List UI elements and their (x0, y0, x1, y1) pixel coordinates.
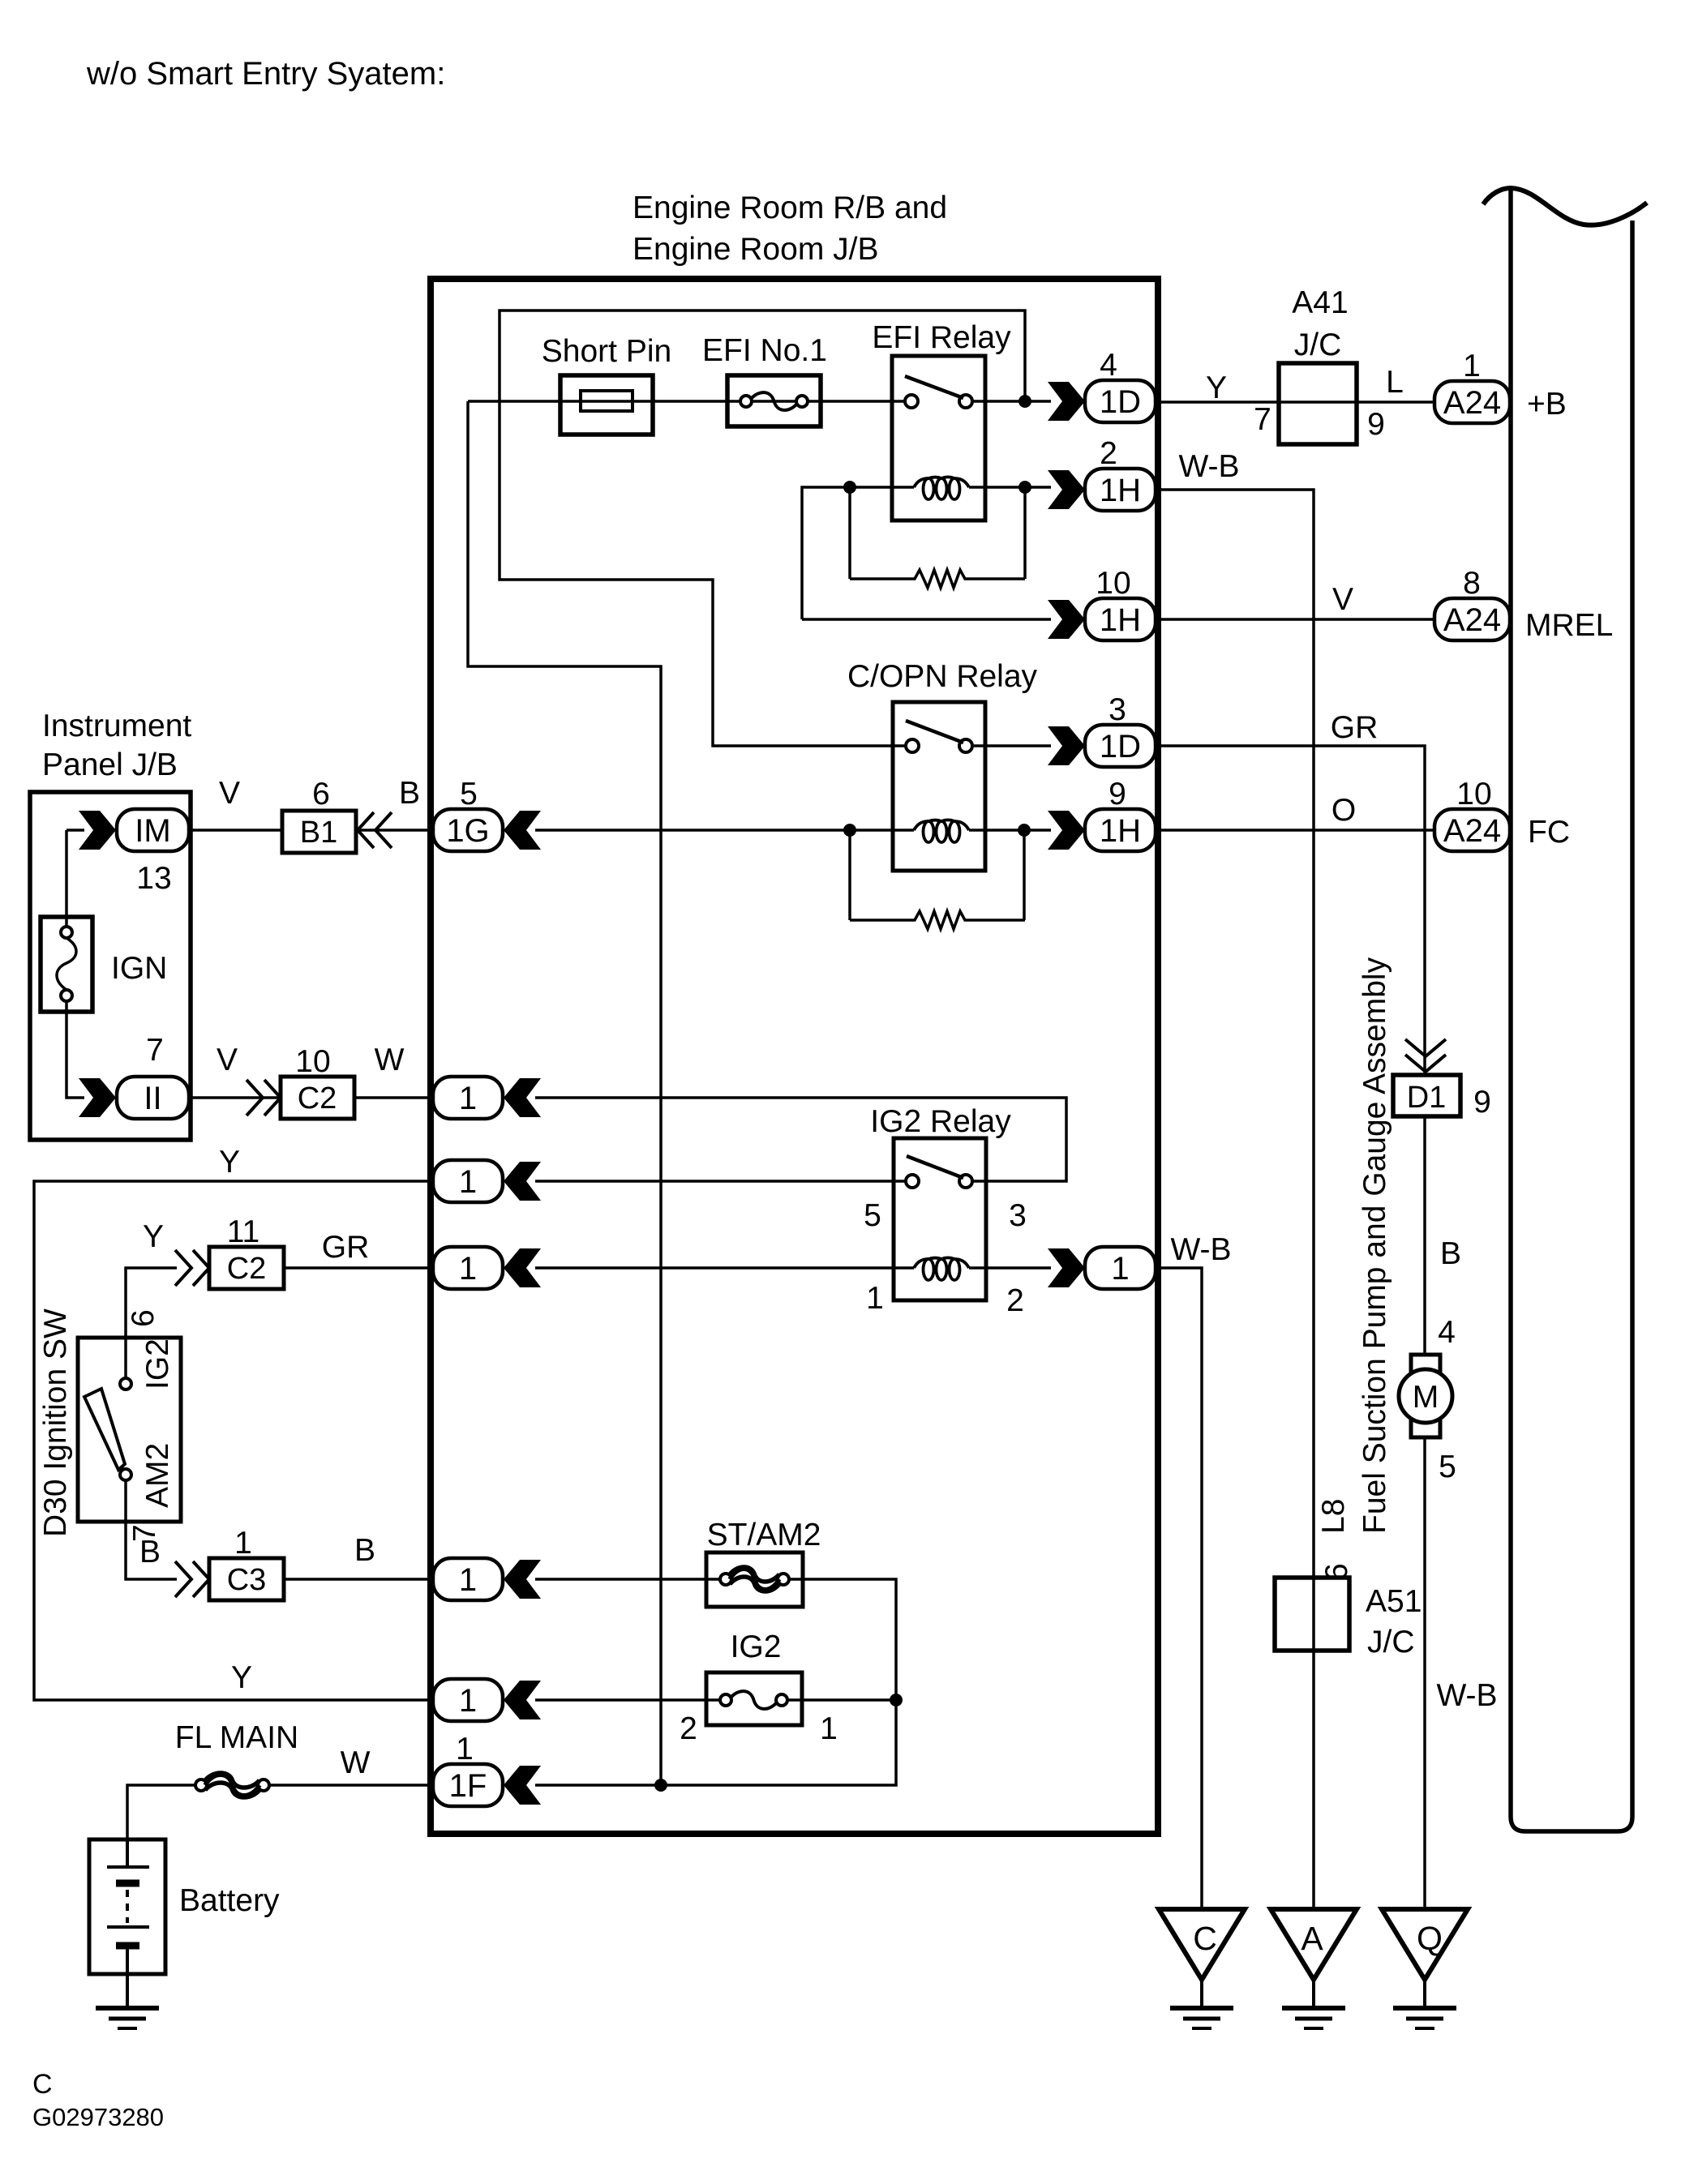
svg-text:V: V (217, 1043, 238, 1077)
label L8 (1316, 1499, 1351, 1534)
pin 6 label B1 (312, 777, 330, 812)
svg-text:C2: C2 (227, 1252, 267, 1286)
svg-text:10: 10 (1456, 777, 1491, 812)
pin 5 label motor (1439, 1450, 1456, 1484)
wire Short Pin row (468, 400, 905, 403)
svg-text:1H: 1H (1100, 813, 1141, 849)
svg-text:C3: C3 (227, 1563, 267, 1597)
IG2 contact (120, 1378, 131, 1390)
svg-text:Engine Room R/B and: Engine Room R/B and (633, 191, 947, 225)
svg-text:C: C (32, 2069, 53, 2100)
label Battery (179, 1883, 280, 1918)
wire ST/AM2 to 1F riser (535, 1579, 896, 1785)
connector 1 (433, 1679, 541, 1721)
label IGN (111, 951, 167, 986)
wire IG2 fuse output (787, 1698, 896, 1702)
svg-text:W: W (341, 1745, 371, 1780)
wire IG2 coil output pin 2 (969, 1266, 1051, 1270)
connector 1 (IG2 relay coil output) (1048, 1247, 1156, 1289)
label +B terminal (1527, 387, 1567, 422)
svg-text:6: 6 (126, 1309, 161, 1327)
pin 4 label motor (1438, 1315, 1456, 1350)
svg-text:EFI Relay: EFI Relay (872, 320, 1011, 355)
label IG2 contact (140, 1338, 175, 1390)
pin 7 label D30 (127, 1524, 162, 1542)
svg-text:A41: A41 (1292, 285, 1348, 320)
wire W-B (coil output 1 to ground C) (1155, 1268, 1202, 1909)
svg-text:5: 5 (1439, 1450, 1456, 1484)
label A51 J/C (1367, 1625, 1415, 1659)
svg-text:A51: A51 (1366, 1584, 1422, 1619)
label B wire (1440, 1236, 1461, 1271)
wire EFI relay feedback to C/OPN switch (500, 310, 1025, 746)
junction C/OPN coil output node (1018, 824, 1031, 837)
label W-B wire to Q (1436, 1678, 1497, 1713)
label A41 J/C (1294, 328, 1342, 362)
svg-text:J/C: J/C (1367, 1625, 1415, 1659)
pin 11 label C2 (227, 1214, 260, 1249)
junction C/OPN coil input node (843, 824, 856, 837)
svg-text:B: B (354, 1533, 375, 1568)
ignition switch lever (84, 1389, 125, 1470)
connector 1G pin 5 (433, 777, 541, 851)
label B wire AM2-C3 (139, 1535, 161, 1569)
svg-text:1: 1 (459, 1251, 477, 1287)
label W wire FL-1F (341, 1745, 371, 1780)
svg-text:Short Pin: Short Pin (542, 334, 671, 369)
label MREL terminal (1525, 608, 1613, 643)
svg-text:6: 6 (312, 777, 330, 812)
svg-text:1F: 1F (449, 1768, 487, 1804)
label GR wire (1331, 710, 1379, 745)
connector A24 pin 8 (1434, 566, 1510, 640)
pin 6 label D30 (126, 1309, 161, 1327)
label Y wire upper (219, 1145, 240, 1180)
relay EFI Relay box (892, 356, 985, 520)
svg-text:IG2: IG2 (731, 1629, 782, 1664)
svg-text:C2: C2 (298, 1081, 337, 1116)
AM2 contact (120, 1469, 131, 1480)
connector IM (79, 809, 189, 851)
svg-text:2: 2 (1006, 1283, 1024, 1318)
pin 1 label IG2 fuse (820, 1711, 838, 1746)
label EFI No.1 (702, 333, 827, 368)
svg-text:O: O (1332, 793, 1356, 828)
wire W row to IG2 relay pin 3 (535, 1098, 1066, 1181)
label Panel J/B (42, 747, 178, 782)
svg-text:Q: Q (1417, 1920, 1443, 1957)
connector 1 (433, 1247, 541, 1289)
title text (86, 56, 445, 92)
arrow into C3 (175, 1561, 209, 1597)
ECM boundary torn edge (1483, 188, 1647, 225)
svg-text:4: 4 (1100, 348, 1117, 383)
wire W (C2 to 1) (354, 1096, 430, 1099)
label Y wire lower (231, 1660, 252, 1695)
label Instrument (42, 709, 191, 743)
svg-text:7: 7 (1254, 402, 1271, 437)
svg-text:Instrument: Instrument (42, 709, 191, 743)
svg-text:IG2: IG2 (140, 1338, 175, 1390)
svg-text:V: V (219, 776, 240, 811)
svg-text:B1: B1 (300, 816, 337, 850)
wire IG2 contact to C2 pin 11 (126, 1268, 177, 1378)
wire B (B1 to 1G) (356, 829, 430, 832)
label V wire II-C2 (217, 1043, 238, 1077)
fuse EFI No.1 (727, 375, 821, 426)
wire GR (1D-3 to D1) (1155, 746, 1425, 1075)
arrow into C2 pin 10 (247, 1080, 281, 1116)
wire Y loop (connector 1 to connector 1) (34, 1181, 430, 1700)
svg-text:W-B: W-B (1170, 1232, 1231, 1267)
ground battery (96, 2008, 159, 2028)
svg-text:1G: 1G (446, 813, 489, 849)
wire Y (1D-4 to A41) (1155, 400, 1279, 404)
fusible link FL MAIN (195, 1773, 269, 1797)
junction EFI coil input node (843, 481, 856, 494)
pin 2 label IG2 relay (1006, 1283, 1024, 1318)
svg-text:Battery: Battery (179, 1883, 280, 1918)
Instrument Panel J/B box (30, 792, 191, 1140)
svg-text:L: L (1386, 365, 1404, 400)
pin 10 label C2 (295, 1044, 330, 1079)
svg-text:A24: A24 (1443, 385, 1501, 421)
C/OPN relay switch (906, 721, 972, 752)
IG2 relay coil (914, 1258, 969, 1281)
svg-text:11: 11 (227, 1214, 260, 1249)
fusible link ST/AM2 (706, 1552, 803, 1607)
svg-text:Fuel Suction Pump and Gauge As: Fuel Suction Pump and Gauge Assembly (1357, 957, 1392, 1534)
wire V (II to C2) (189, 1096, 281, 1099)
pin 9 label D1 (1473, 1085, 1491, 1120)
wire B (C3 to 1) (284, 1578, 430, 1581)
wire C/OPN coil output (969, 829, 1051, 832)
fuse IGN (41, 917, 92, 1012)
svg-text:J/C: J/C (1294, 328, 1342, 362)
label Engine Room R/B and (633, 191, 947, 225)
svg-text:Y: Y (1206, 370, 1227, 405)
wire W-B through A51 to ground A (1312, 1576, 1315, 1909)
wire C/OPN switch output (972, 744, 1051, 747)
pin 9 label A41 (1367, 407, 1385, 442)
wire V (1H-10 to A24-8) (1155, 618, 1434, 621)
connector A24 pin 1 (1434, 349, 1510, 423)
label AM2 contact (140, 1443, 175, 1508)
connector 1H pin 2 (1048, 436, 1156, 511)
connector 1F pin 1 (433, 1732, 541, 1806)
svg-text:B: B (399, 776, 420, 811)
svg-text:1: 1 (866, 1281, 884, 1316)
C/OPN relay coil (914, 820, 969, 843)
fuse IG2 (706, 1672, 802, 1725)
svg-text:ST/AM2: ST/AM2 (707, 1518, 821, 1552)
pin 1 label IG2 relay (866, 1281, 884, 1316)
svg-text:5: 5 (460, 777, 478, 812)
svg-text:w/o Smart Entry Syatem:: w/o Smart Entry Syatem: (86, 56, 445, 92)
label W-B wire to C (1170, 1232, 1231, 1267)
resistor EFI relay parallel (850, 487, 1025, 588)
pin 13 label IM (136, 861, 171, 896)
svg-text:2: 2 (680, 1711, 697, 1746)
svg-text:1H: 1H (1100, 602, 1141, 638)
svg-text:G02973280: G02973280 (32, 2103, 164, 2131)
label V wire (1332, 582, 1353, 617)
svg-text:IG2 Relay: IG2 Relay (870, 1104, 1011, 1139)
svg-text:1: 1 (456, 1732, 474, 1766)
wire W (FL MAIN to 1F) (270, 1784, 430, 1787)
svg-text:C/OPN Relay: C/OPN Relay (847, 659, 1038, 694)
EFI relay coil (914, 477, 969, 500)
svg-text:10: 10 (295, 1044, 330, 1079)
svg-text:4: 4 (1438, 1315, 1456, 1350)
svg-text:EFI No.1: EFI No.1 (702, 333, 827, 368)
svg-text:Y: Y (143, 1219, 164, 1254)
arrow into C2 pin 11 (175, 1250, 209, 1286)
svg-text:GR: GR (322, 1230, 370, 1265)
wire GR row to IG2 coil pin 1 (535, 1266, 914, 1270)
connector II (79, 1077, 189, 1119)
wire W-B (motor to ground Q) (1423, 1437, 1426, 1909)
svg-text:GR: GR (1331, 710, 1379, 745)
svg-text:1D: 1D (1100, 729, 1141, 764)
svg-text:Y: Y (219, 1145, 240, 1180)
connector 1 (433, 1077, 541, 1119)
wire W-B (1H-2 to ground A) (1155, 490, 1314, 1576)
svg-text:Engine Room J/B: Engine Room J/B (633, 232, 879, 267)
short pin SP (560, 375, 653, 435)
connector 1H pin 9 (1048, 777, 1156, 851)
wire V (IM to B1) (189, 829, 282, 832)
label FL MAIN (175, 1720, 298, 1755)
ground C (1159, 1909, 1245, 2028)
svg-text:M: M (1413, 1380, 1439, 1415)
svg-text:5: 5 (864, 1198, 881, 1233)
label FC terminal (1528, 815, 1570, 850)
label G02973280 (32, 2103, 164, 2131)
label A41 (1292, 285, 1348, 320)
svg-text:V: V (1332, 582, 1353, 617)
junction connector C2 pin 10 (281, 1077, 354, 1119)
svg-text:B: B (139, 1535, 161, 1569)
pin 6 label A51 (1319, 1563, 1354, 1581)
motor M fuel suction pump (1399, 1355, 1452, 1437)
label GR wire C2-1 (322, 1230, 370, 1265)
pin 7 label II (146, 1033, 164, 1068)
wire Y row to IG2 fuse (535, 1698, 721, 1702)
svg-text:A: A (1301, 1920, 1323, 1957)
svg-text:1H: 1H (1100, 473, 1141, 508)
svg-text:+B: +B (1527, 387, 1567, 422)
wire MREL row inside J/B (802, 618, 1051, 621)
svg-text:A24: A24 (1443, 602, 1501, 638)
svg-text:A24: A24 (1443, 813, 1501, 849)
svg-text:1: 1 (459, 1683, 477, 1719)
connector 1D pin 3 (1048, 692, 1156, 767)
label V wire IM-B1 (219, 776, 240, 811)
svg-text:8: 8 (1463, 566, 1481, 601)
svg-text:3: 3 (1009, 1198, 1027, 1233)
EFI relay switch (905, 376, 972, 408)
svg-text:9: 9 (1473, 1085, 1491, 1120)
pin 5 label IG2 relay (864, 1198, 881, 1233)
svg-text:3: 3 (1109, 692, 1126, 727)
svg-text:2: 2 (1100, 436, 1117, 471)
label Y wire (1206, 370, 1227, 405)
wire B row to ST/AM2 (535, 1578, 721, 1581)
label C/OPN Relay (847, 659, 1038, 694)
svg-text:9: 9 (1367, 407, 1385, 442)
svg-text:1: 1 (459, 1164, 477, 1200)
resistor C/OPN relay parallel (850, 830, 1025, 929)
svg-text:9: 9 (1109, 777, 1126, 812)
svg-text:II: II (144, 1081, 161, 1116)
svg-text:1: 1 (1463, 349, 1481, 383)
label ST/AM2 (707, 1518, 821, 1552)
wire Y row to IG2 relay pin 5 (535, 1180, 906, 1183)
wire IGN fuse riser (66, 830, 84, 1098)
svg-text:W-B: W-B (1178, 449, 1239, 484)
junction ST/AM2 riser and 1F wire (654, 1779, 667, 1792)
label B wire C3-1 (354, 1533, 375, 1568)
svg-text:1: 1 (459, 1562, 477, 1598)
wire O (1H-9 to A24-10) (1155, 829, 1434, 832)
wire 1G row to C/OPN coil (535, 829, 914, 832)
connector D1 (1393, 1075, 1460, 1116)
wire GR (C2 to 1) (284, 1266, 430, 1270)
svg-text:MREL: MREL (1525, 608, 1613, 643)
wire battery feed to Short Pin (1F riser) (468, 401, 661, 1785)
pin 1 label C3 (234, 1526, 252, 1561)
wire battery to FL MAIN (127, 1785, 195, 1839)
label O wire (1332, 793, 1356, 828)
arrow into D1 (1405, 1039, 1446, 1072)
svg-text:D1: D1 (1407, 1081, 1447, 1115)
junction EFI coil output node (1018, 481, 1031, 494)
ignition switch D30 box (78, 1338, 181, 1522)
label Fuel Suction Pump and Gauge Assembly (1357, 957, 1392, 1534)
label Engine Room J/B (633, 232, 879, 267)
svg-text:FL MAIN: FL MAIN (175, 1720, 298, 1755)
label W-B wire (1178, 449, 1239, 484)
svg-text:IGN: IGN (111, 951, 167, 986)
wire EFI coil output (969, 486, 1051, 489)
wire EFI relay switch output (972, 400, 1051, 403)
Engine Room R/B and J/B box (431, 279, 1158, 1834)
svg-text:13: 13 (136, 861, 171, 896)
svg-text:Y: Y (231, 1660, 252, 1695)
label Y wire IG2-C2 (143, 1219, 164, 1254)
label C footnote (32, 2069, 53, 2100)
relay IG2 Relay box (894, 1138, 986, 1300)
junction connector C3 (209, 1558, 284, 1600)
wire inside A41 (1279, 400, 1357, 404)
label B wire B1-1G (399, 776, 420, 811)
svg-text:1: 1 (820, 1711, 838, 1746)
svg-text:7: 7 (146, 1033, 164, 1068)
svg-text:FC: FC (1528, 815, 1570, 850)
junction connector B1 (282, 811, 356, 853)
svg-text:1D: 1D (1100, 384, 1141, 420)
label D30 Ignition SW (38, 1308, 73, 1537)
junction connector C2 pin 11 (209, 1247, 284, 1289)
junction EFI switch output node (1018, 395, 1031, 408)
relay C/OPN Relay box (893, 702, 985, 871)
ground Q (1382, 1909, 1468, 2028)
pin 2 label IG2 fuse (680, 1711, 697, 1746)
label IG2 Relay (870, 1104, 1011, 1139)
svg-text:D30 Ignition SW: D30 Ignition SW (38, 1308, 73, 1537)
connector 1 (433, 1558, 541, 1600)
battery (89, 1839, 165, 2008)
connector 1H pin 10 (1048, 566, 1156, 640)
svg-text:L8: L8 (1316, 1499, 1351, 1534)
label L wire (1386, 365, 1404, 400)
svg-text:1: 1 (459, 1081, 477, 1116)
svg-text:W: W (375, 1043, 405, 1077)
connector A24 pin 10 (1434, 777, 1510, 851)
svg-text:C: C (1193, 1920, 1217, 1957)
svg-text:1: 1 (1111, 1251, 1129, 1287)
junction connector A51 J/C (1275, 1578, 1349, 1651)
svg-text:Panel J/B: Panel J/B (42, 747, 178, 782)
pin 7 label A41 (1254, 402, 1271, 437)
label Short Pin (542, 334, 671, 369)
svg-text:W-B: W-B (1436, 1678, 1497, 1713)
label A51 (1366, 1584, 1422, 1619)
svg-text:B: B (1440, 1236, 1461, 1271)
pin 3 label IG2 relay (1009, 1198, 1027, 1233)
svg-text:AM2: AM2 (140, 1443, 175, 1508)
junction IG2 fuse output node (890, 1694, 903, 1707)
svg-text:IM: IM (135, 813, 170, 849)
wire L (A41 to A24-1) (1357, 400, 1434, 404)
wire B (D1 to fuel pump motor) (1423, 1116, 1426, 1355)
ECM boundary outline (1511, 188, 1632, 1831)
svg-text:1: 1 (234, 1526, 252, 1561)
label IG2 fuse (731, 1629, 782, 1664)
ground A (1271, 1909, 1357, 2028)
label W wire C2-1 (375, 1043, 405, 1077)
label EFI Relay (872, 320, 1011, 355)
connector 1 (433, 1160, 541, 1202)
arrow into B1 (358, 812, 392, 848)
connector 1D pin 4 (1048, 348, 1156, 422)
IG2 relay switch (906, 1156, 972, 1188)
svg-text:10: 10 (1096, 566, 1130, 601)
wire AM2 contact to C3 (126, 1480, 177, 1579)
junction connector A41 J/C (1279, 363, 1357, 444)
wire EFI coil input (802, 487, 914, 619)
